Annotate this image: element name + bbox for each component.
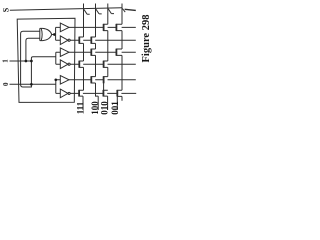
transistor Q6 C4xR3 [116,49,122,55]
wire hook gate input A [21,31,40,87]
buffer U5 [60,60,68,69]
load diode column 4 [122,9,125,13]
wire riser to pair2 [31,57,55,87]
node label 010 [100,101,110,115]
buffer U6 [60,76,69,85]
transistor Q1 C3xR1 [104,24,108,30]
wire S tail right [125,9,136,10]
wire row R4 [70,63,136,65]
load diode column 1 [84,9,90,14]
wire row R6 [70,92,136,94]
node input 0 label [2,82,10,86]
load diode column 2 [96,9,102,14]
wire pair2 input bar [56,52,61,64]
transistor interior patches [80,25,122,96]
transistor Q7 C1xR4 [79,61,83,67]
wire hook gate input B [26,38,40,61]
junction dot gate out [53,33,56,36]
wire input 1 row [10,60,32,62]
transistor Q9 C2xR5 [91,77,95,83]
svg-text:S: S [2,7,11,12]
inverter bubble U5 [68,63,70,65]
transistor Q4 C2xR2 [91,37,95,43]
wire row R5 [68,79,136,81]
node label 001 [110,101,120,115]
wire input 0 row [10,83,56,85]
svg-text:Figure 298: Figure 298 [141,15,152,63]
svg-text:010: 010 [100,101,110,115]
transistor Q3 C1xR2 [79,37,83,43]
load diode column 3 [108,9,114,14]
wire gate output [52,34,56,36]
junction dot pair3 top [54,78,57,81]
node input 1 label [2,59,10,63]
buffer U7 [60,89,68,98]
wire pair1 input bar [56,27,61,40]
buffer U4 [60,48,69,57]
transistor Q2 C4xR1 [116,24,122,30]
column 1 [83,4,85,91]
buffer U3 [60,36,68,45]
inverter bubble U7 [68,92,70,94]
junction dot hookB-row1 [25,60,28,63]
junction dot riser-row0 [30,83,33,86]
node label 100 [90,101,100,115]
wire row R1 [68,26,136,28]
column 2 [96,4,99,97]
svg-text:1: 1 [2,59,10,63]
buffer U2 [60,23,69,32]
transistor Q12 C3xR6 [103,90,107,110]
junction dot riser-row1 [30,60,33,63]
transistor Q10 C3xR5 [104,77,108,83]
wire row R2 [70,39,136,41]
wire pair3 input bar [56,80,61,94]
gate U1 XOR [39,28,41,40]
svg-text:001: 001 [110,101,120,115]
transistor Q11 C1xR6 [79,90,83,110]
caption Figure 298 [141,15,152,63]
inverter bubble U3 [68,39,70,41]
column 3 lower shifted [103,83,105,90]
column 4 [121,4,123,101]
node S label [2,7,11,12]
svg-text:0: 0 [2,82,10,86]
transistor Q5 C2xR3 [91,49,95,55]
column 3 [107,4,109,77]
svg-text:111: 111 [75,101,85,114]
transistor Q8 C3xR4 [104,61,108,67]
wire row R3 [68,51,136,53]
transistor Q13 C4xR6 [117,90,122,110]
wire output 100 exit [97,96,99,110]
decoder box [17,18,75,102]
wire S supply line [10,8,122,11]
node label 111 [75,101,85,114]
